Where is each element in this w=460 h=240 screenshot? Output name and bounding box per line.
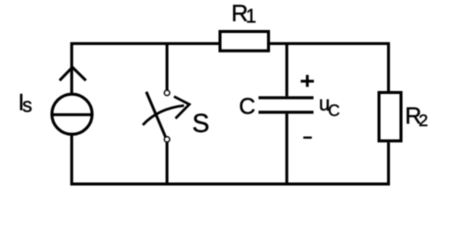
svg-text:1: 1 <box>246 7 257 28</box>
svg-text:2: 2 <box>419 111 428 130</box>
svg-text:C: C <box>239 93 256 119</box>
svg-text:S: S <box>192 108 209 138</box>
svg-text:C: C <box>328 102 340 120</box>
svg-text:s: s <box>22 95 32 117</box>
